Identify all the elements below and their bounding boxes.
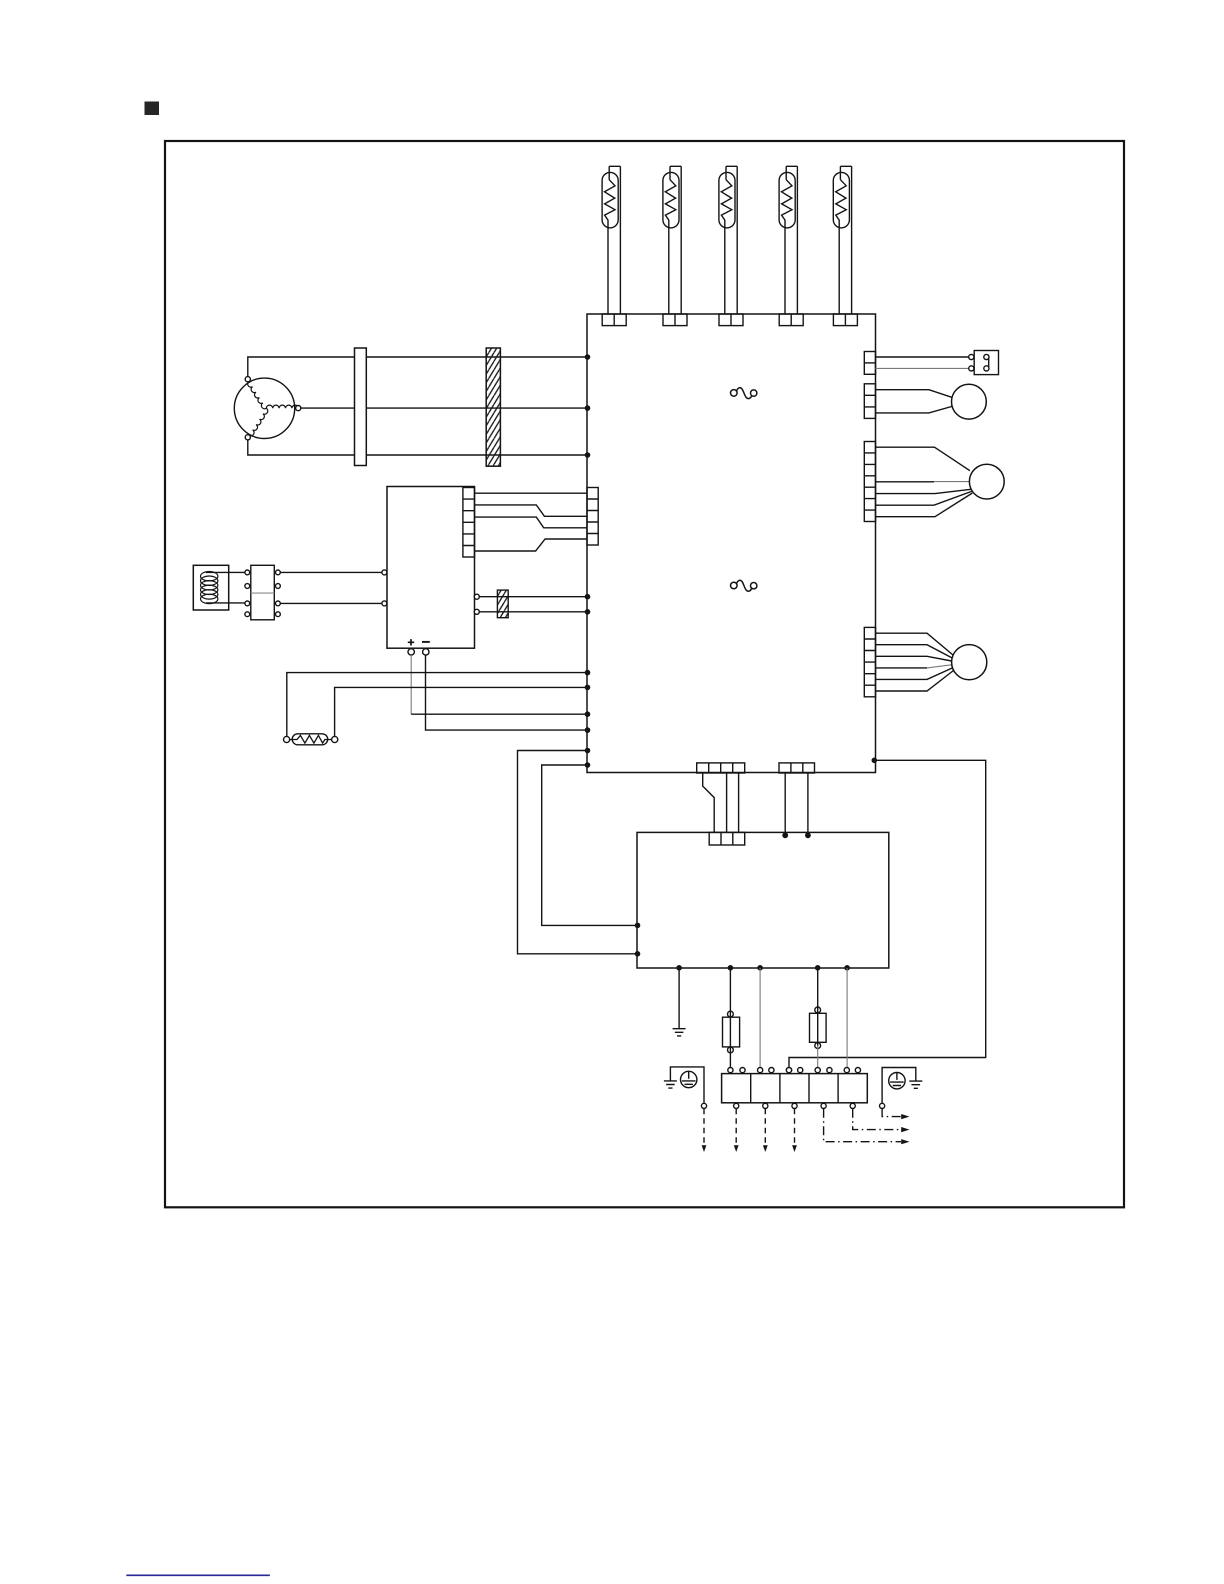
- ferrite sleeve bar (hatched): [486, 348, 500, 466]
- node U3 out3: [815, 965, 821, 971]
- wire U3 to chassis ground: [678, 968, 680, 1029]
- wire U2 plus to U1: [410, 655, 412, 714]
- wire CN-A pin3 to CN-B pin4: [475, 517, 588, 528]
- node plus on U1: [585, 711, 591, 717]
- ferrite sleeve bar (plain): [355, 348, 367, 466]
- node minus on U1: [585, 727, 591, 733]
- node feedback A on U1: [585, 748, 591, 754]
- node R-right on U1: [585, 685, 591, 691]
- node live on U1 right edge: [872, 758, 878, 764]
- thermal switch S1 box: [974, 351, 998, 375]
- U2 plus label: [408, 639, 414, 645]
- wire CN-R3 pin4 to fan B2: [876, 481, 935, 483]
- U2 left terminal upper: [382, 570, 387, 575]
- wire U3 out2 to terminal block: [759, 968, 761, 1067]
- wire CN-R4 pin1 to fan B3: [876, 633, 954, 655]
- solenoid coil L1 winding: [201, 572, 218, 604]
- U2 left terminal lower: [382, 601, 387, 606]
- wire U2 minus to U1: [426, 655, 588, 730]
- main control PCB U1: [587, 314, 876, 773]
- TB1 cell3 dashed lead: [794, 1109, 796, 1145]
- motor M1 winding lower-left: [249, 408, 269, 437]
- wire U2 to U1 upper sense: [479, 596, 587, 598]
- wire motor phase U to U1: [248, 357, 587, 377]
- footer link underline: [126, 1574, 270, 1576]
- connector CN-BB on U1 bottom edge: [779, 763, 815, 773]
- resistor R1 terminal right: [332, 736, 338, 742]
- fuse F1 terminal top: [728, 1011, 734, 1017]
- TB1 bottom terminals: [734, 1103, 856, 1108]
- node U3 out4: [844, 965, 850, 971]
- wire CN-BA pin1 to CN-C: [703, 773, 715, 832]
- chassis ground symbol: [673, 1029, 686, 1036]
- fuse F2 terminal top: [815, 1007, 821, 1013]
- protective earth PE2 bracket: [882, 1068, 916, 1104]
- fuse F2 terminal bottom: [815, 1043, 821, 1049]
- wire CN-A pin6 to CN-B pin5: [475, 539, 588, 551]
- fuse F1 terminal bottom: [728, 1047, 734, 1053]
- TB1 cell5 dash-dot lead: [853, 1109, 901, 1130]
- wire CN-R4 pin2 to fan B3: [876, 645, 953, 658]
- node feedback A on U3: [635, 951, 641, 957]
- node W on U1 left edge: [585, 452, 591, 458]
- U2 plus terminal: [408, 649, 414, 655]
- wire U3 out3 to fuse F2: [817, 968, 819, 1046]
- TB1 cell3 arrow: [792, 1145, 797, 1152]
- wire CN-R3 pin4 gray tail: [934, 481, 969, 483]
- PE1 arrow: [702, 1145, 707, 1152]
- wire K1 to U2 lower: [280, 602, 382, 604]
- node R-left on U1: [585, 670, 591, 676]
- PE1 terminal: [701, 1103, 706, 1108]
- relay K1 terminals left: [245, 570, 250, 617]
- heater element EL4: [779, 166, 803, 325]
- node U on U1 left edge: [585, 354, 591, 360]
- terminal circle of live wire: [786, 1068, 791, 1073]
- heater element EL1: [602, 166, 626, 325]
- TB1 cell2 dashed lead: [764, 1109, 766, 1145]
- node V on U1 left edge: [585, 405, 591, 411]
- wire CN-R2 pin3 to fan B1: [876, 407, 952, 413]
- resistor R1 terminal left: [284, 736, 290, 742]
- motor M1 body: [234, 378, 294, 438]
- switch S1 bridge: [988, 358, 990, 368]
- wire CN-BA pin4 to CN-C: [738, 773, 740, 832]
- wire CN-R3 pin7 to fan B2: [876, 493, 973, 517]
- title bullet square: [145, 102, 160, 116]
- wire CN-BA pin3 to CN-C: [726, 773, 728, 832]
- wire K1 to U2 upper: [280, 571, 382, 573]
- PE2 dash-dot lead: [882, 1109, 901, 1117]
- protective earth PE1 bracket: [670, 1067, 704, 1103]
- relay K1 terminals right: [276, 570, 281, 617]
- terminal block TB1 dividers: [751, 1074, 838, 1103]
- motor M1 terminal right: [296, 406, 301, 411]
- connector CN-C on U3 top edge: [709, 832, 745, 845]
- connector CN-R2 on U1 right edge: [864, 384, 875, 419]
- PE1 dashed lead: [703, 1109, 705, 1145]
- motor M1 winding right: [266, 405, 298, 408]
- node sense lower on U1: [585, 609, 591, 615]
- fan motor B3: [952, 645, 987, 680]
- wire live from U1 to terminal block: [789, 760, 986, 1067]
- wire CN-R1 pin2 to switch S1: [876, 367, 969, 369]
- wire CN-R3 pin1 to fan B2: [876, 447, 970, 471]
- wire CN-R4 pin3 to fan B3: [876, 656, 952, 661]
- diagram border frame: [165, 141, 1124, 1207]
- wire CN-R4 pin4 to fan B3: [876, 667, 928, 669]
- AC symbol 2: [731, 580, 757, 591]
- AC symbol 1: [731, 388, 757, 399]
- wire CN-A pin1 to CN-B pin1: [475, 492, 588, 494]
- heater element EL5: [833, 166, 857, 325]
- protective earth PE1 ground bars: [664, 1081, 677, 1088]
- PE2 arrow: [901, 1114, 909, 1119]
- connector CN-B on U1 left edge: [587, 488, 598, 546]
- terminal block TB1: [722, 1074, 868, 1103]
- wire U2 to U1 lower sense: [479, 611, 587, 613]
- protective earth PE2 symbol: [889, 1073, 905, 1089]
- node sense upper on U1: [585, 594, 591, 600]
- node feedback B on U3: [635, 923, 641, 929]
- motor M1 winding upper-left: [246, 381, 266, 410]
- wire feedback B from U1 to U3: [542, 765, 636, 925]
- wire resistor left leg: [287, 673, 587, 737]
- TB1 top terminals: [728, 1068, 861, 1073]
- wire L1 bottom to relay K1: [206, 602, 245, 604]
- wire CN-A pin2 to CN-B pin3: [475, 505, 588, 516]
- PE2 terminal: [880, 1103, 885, 1108]
- U2 right terminal upper: [474, 594, 479, 599]
- fan motor B2: [969, 464, 1004, 499]
- wire CN-R1 pin1 to switch S1: [876, 356, 969, 358]
- wire CN-R3 pin6 to fan B2: [876, 491, 972, 505]
- hatched sleeve on sense wires: [497, 590, 508, 618]
- resistor R1 body: [292, 734, 328, 745]
- connector CN-R4 on U1 right edge: [864, 627, 875, 696]
- U2 minus terminal: [423, 649, 429, 655]
- wire CN-R2 pin1 to fan B1: [876, 390, 952, 398]
- node U3 out1: [728, 965, 734, 971]
- connector CN-BA on U1 bottom edge: [697, 763, 745, 773]
- TB1 cell4 dash-dot lead: [824, 1109, 901, 1142]
- U2 right terminal lower: [474, 609, 479, 614]
- fuse F2 body: [810, 1013, 827, 1042]
- relay K1 block divider: [251, 592, 274, 594]
- wire feedback A from U1 to U3: [518, 751, 636, 954]
- wire motor phase W to U1: [248, 440, 587, 455]
- node feedback B on U1: [585, 762, 591, 768]
- fan motor B1: [952, 384, 987, 419]
- heater element EL3: [719, 166, 743, 325]
- wire resistor right leg: [335, 687, 587, 736]
- switch S1 contacts: [969, 354, 989, 371]
- TB1 cell5 arrow: [901, 1127, 909, 1132]
- wire CN-R3 pin5 to fan B2: [876, 489, 972, 493]
- wire U3 out4 to terminal block: [846, 968, 848, 1067]
- TB1 cell2 arrow: [763, 1145, 768, 1152]
- node U3 out2: [757, 965, 763, 971]
- motor M1 terminal upper-left: [245, 377, 250, 382]
- wire CN-R4 pin4 gray tail: [927, 665, 952, 668]
- node BB1 on U3 top edge: [782, 832, 788, 838]
- connector CN-R3 on U1 right edge: [864, 442, 875, 522]
- TB1 cell1 dashed lead: [735, 1109, 737, 1145]
- connector CN-A on U2 right edge: [463, 488, 475, 558]
- motor M1 terminal lower-left: [245, 435, 250, 440]
- wire F2 to terminal block: [817, 1046, 819, 1068]
- node U3 ground: [676, 965, 682, 971]
- U2 minus label: [422, 641, 430, 643]
- relay K1 contact block: [251, 565, 274, 620]
- wire CN-BB pin3 to U3: [807, 773, 809, 835]
- wire U3 out1 to fuse F1: [729, 968, 731, 1067]
- connector CN-R1 on U1 right edge: [864, 352, 875, 375]
- wire L1 top to relay K1: [206, 571, 245, 573]
- wire CN-R4 pin5 to fan B3: [876, 668, 953, 679]
- heater element EL2: [663, 166, 687, 325]
- wire motor phase V to U1: [301, 407, 587, 409]
- power filter board U3: [637, 832, 889, 968]
- solenoid coil L1 box: [193, 565, 228, 610]
- wire CN-BB pin1 to U3: [784, 773, 786, 835]
- TB1 cell4 arrow: [901, 1139, 909, 1144]
- TB1 cell1 arrow: [734, 1145, 739, 1152]
- node BB3 on U3 top edge: [805, 832, 811, 838]
- power supply board U2: [387, 487, 475, 649]
- resistor R1 zigzag: [290, 735, 332, 743]
- wire CN-R4 pin6 to fan B3: [876, 671, 954, 692]
- protective earth PE1 symbol: [681, 1071, 697, 1087]
- fuse F1 body: [723, 1017, 740, 1047]
- protective earth PE2 ground bars: [909, 1081, 922, 1088]
